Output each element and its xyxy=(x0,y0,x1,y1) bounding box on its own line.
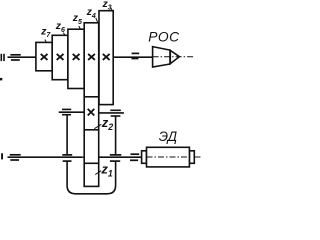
svg-text:РОС: РОС xyxy=(148,30,180,45)
svg-text:ЭД: ЭД xyxy=(159,129,178,144)
